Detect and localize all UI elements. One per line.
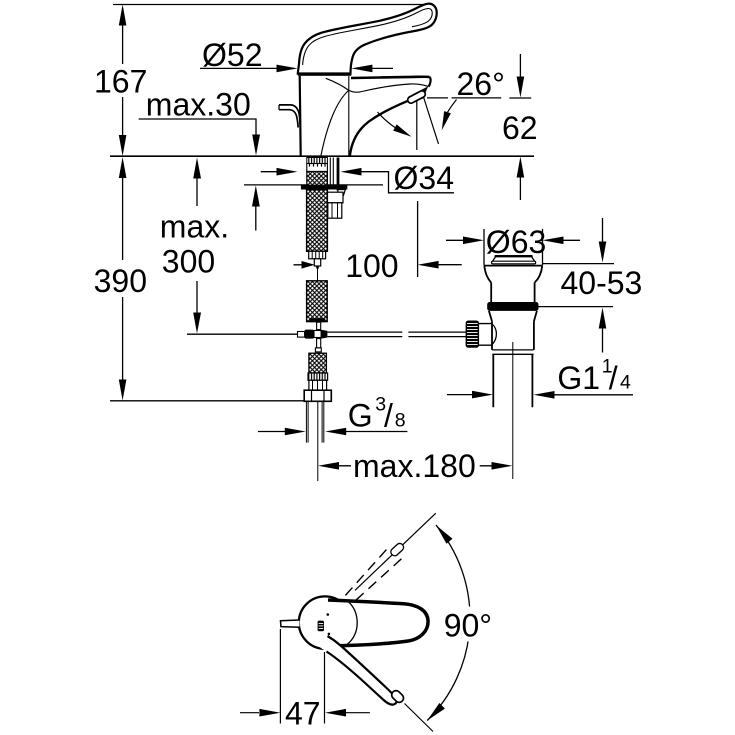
rod nut upper (327, 192, 343, 203)
thread band (307, 158, 328, 164)
body left edge (300, 76, 301, 156)
lever inner line (303, 8, 433, 65)
G38 nut (304, 390, 331, 401)
boss arc (492, 324, 496, 345)
26deg leader curve (448, 100, 457, 113)
arrow 40-53 top (599, 242, 607, 263)
dim o63 (446, 229, 580, 266)
dim max180 shafts (339, 465, 492, 467)
svg-text:47: 47 (285, 696, 321, 732)
arrow 390 bottom (119, 380, 127, 401)
90deg arc (427, 525, 470, 720)
svg-text:100: 100 (345, 248, 398, 284)
ring groove (492, 350, 533, 354)
handle top view (312, 633, 396, 704)
svg-text:Ø52: Ø52 (202, 37, 262, 73)
handle tip cap (390, 689, 405, 704)
arrow max30 top (252, 135, 260, 156)
arrow max300 top (193, 158, 201, 179)
svg-text:max.30: max.30 (146, 86, 251, 122)
dim 167 line (122, 8, 124, 150)
spout end face (429, 77, 431, 87)
arrow G1 left (472, 391, 493, 399)
top reference line (113, 4, 429, 6)
white band (307, 164, 328, 172)
body circle (299, 596, 351, 648)
arrowheads (119, 5, 607, 470)
flange taper sides (484, 266, 542, 282)
lower hose end band (310, 318, 326, 322)
arrow 26 leader end (442, 111, 451, 130)
seam from deck (321, 91, 349, 156)
rod clamp (298, 332, 305, 338)
hose pin (314, 259, 320, 266)
lever handle (298, 4, 437, 74)
body right seam (348, 76, 350, 156)
arrow 100 left (302, 261, 315, 269)
arrow 26 arc end (393, 124, 411, 136)
chamfer below flange (338, 190, 346, 196)
knob connectors (478, 324, 491, 346)
rod nut hex (328, 203, 342, 218)
svg-text:Ø34: Ø34 (394, 160, 454, 196)
90deg legs (355, 513, 436, 590)
arrow G38 right (325, 428, 346, 436)
hose end fitting (309, 251, 326, 258)
crosshatch band (307, 172, 328, 186)
flange top (484, 265, 543, 267)
svg-text:62: 62 (502, 110, 538, 146)
crimp sleeve (308, 373, 328, 380)
26deg label line (427, 97, 501, 99)
arrow o52 right (351, 65, 372, 73)
drain body sides (491, 282, 534, 302)
arrow 390 top (119, 157, 127, 178)
deck line (110, 155, 534, 157)
supply hose lower (307, 281, 328, 322)
svg-text:40-53: 40-53 (561, 265, 643, 301)
dim 100 (294, 201, 462, 277)
arrow arc top (436, 525, 453, 544)
26deg arc (378, 112, 396, 128)
supply hose upper (307, 190, 328, 252)
drain centerline (512, 342, 514, 479)
svg-text:max.180: max.180 (353, 448, 476, 484)
svg-text:90°: 90° (444, 608, 492, 644)
dim 390 line (122, 162, 124, 394)
dim 40-53 (537, 218, 614, 353)
arrow 100 right (418, 261, 439, 269)
lower short hose (309, 353, 327, 373)
svg-text:300: 300 (162, 244, 215, 280)
hose break rod (317, 269, 319, 282)
G38 tails (306, 401, 323, 442)
spout top view (330, 600, 428, 646)
pin below clamp (317, 339, 321, 348)
arrow 62 top (517, 77, 525, 98)
svg-text:/: / (384, 397, 393, 433)
arrow max180 left (318, 462, 339, 470)
mounting flange (301, 186, 347, 190)
below seal taper (489, 311, 537, 322)
max300 bottom extension (187, 333, 298, 335)
pin above clamp (317, 322, 321, 329)
drain tailpipe (493, 354, 532, 407)
arrow o63 right (543, 237, 564, 245)
dashed handle lines (345, 547, 403, 601)
dim G1 1/4 (447, 394, 633, 396)
grohe logo mark (327, 613, 330, 616)
svg-text:max.: max. (160, 209, 229, 245)
arrow 167 bottom (119, 135, 127, 156)
svg-text:26°: 26° (457, 66, 505, 102)
arrow G1 right (534, 391, 555, 399)
bottom reference line (110, 400, 304, 402)
svg-text:/: / (609, 360, 618, 396)
26deg angle legs (417, 97, 439, 150)
arrow o63 left (463, 237, 484, 245)
svg-text:4: 4 (620, 372, 631, 394)
svg-text:Ø63: Ø63 (486, 224, 546, 260)
popup rod horizontal (327, 332, 466, 337)
svg-text:G: G (348, 397, 373, 433)
max30 label line (139, 119, 256, 136)
svg-text:390: 390 (94, 263, 147, 299)
seam from collar to tip (326, 78, 428, 92)
aerator shadow wedge (411, 86, 428, 99)
arrow max180 right (492, 462, 513, 470)
svg-text:8: 8 (395, 409, 406, 431)
faucet centerline (317, 402, 319, 481)
cartridge dome arc (347, 601, 357, 645)
arrow arc bottom (427, 703, 445, 721)
drain cap dome (496, 255, 532, 257)
arrow max30 bottom (252, 186, 260, 207)
svg-text:167: 167 (94, 63, 147, 99)
aerator capsule (407, 90, 427, 105)
dashed handle capsule (389, 542, 405, 557)
dim max300 line (196, 162, 198, 328)
spout underside sweep (350, 101, 408, 156)
arrow o34 right (341, 168, 362, 176)
rubber seal (487, 302, 538, 311)
knurled knob (466, 321, 478, 347)
drain tube upper (492, 321, 534, 350)
svg-text:G1: G1 (557, 360, 600, 396)
arrow 62 bottom (517, 157, 525, 178)
dim G3/8 (258, 431, 407, 433)
dim o34 leader (261, 172, 454, 193)
max30 lower shaft (255, 191, 257, 231)
dim o52 leader (200, 67, 393, 69)
arrow max300 bottom (193, 313, 201, 334)
arrow o52 left (277, 65, 298, 73)
arrow 167 top (119, 5, 127, 26)
cartridge collar (298, 73, 351, 76)
rod housing right (330, 158, 333, 186)
arrow 40-53 bottom (599, 308, 607, 329)
aerator nozzle left (281, 620, 300, 627)
side hook (279, 105, 300, 125)
underside line (244, 184, 383, 186)
arrow G38 left (285, 428, 306, 436)
dim 47 (240, 629, 370, 724)
arrow o34 left (277, 168, 298, 176)
dim 62 (509, 54, 531, 200)
spout top edge (351, 77, 429, 78)
